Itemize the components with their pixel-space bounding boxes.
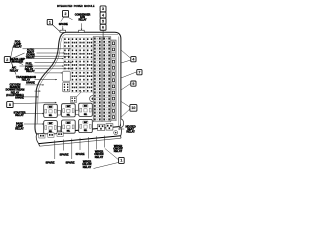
svg-text:9: 9 [132,82,134,86]
svg-text:1: 1 [49,20,51,24]
svg-text:5: 5 [102,19,104,23]
svg-text:4: 4 [102,13,104,17]
svg-text:WASHER: WASHER [12,59,24,63]
svg-text:1: 1 [120,159,122,163]
svg-text:2: 2 [6,58,8,62]
svg-text:REL: REL [67,131,70,133]
svg-text:RELAY: RELAY [15,113,24,117]
svg-text:INTEGRATED POWER MODULE: INTEGRATED POWER MODULE [57,4,95,8]
svg-text:RELAY: RELAY [114,149,123,153]
svg-text:REL: REL [49,115,52,117]
svg-text:SPARE: SPARE [65,160,74,164]
svg-text:SPARE: SPARE [15,96,24,100]
svg-text:RELAY: RELAY [126,130,135,134]
svg-text:SPARE: SPARE [26,80,35,84]
svg-text:SPARE: SPARE [45,161,54,165]
svg-text:RELAY: RELAY [13,45,22,49]
svg-text:SPARE: SPARE [75,152,84,156]
svg-text:RELAY: RELAY [15,126,24,130]
svg-text:6: 6 [102,26,104,30]
svg-text:RELAY: RELAY [78,19,86,22]
svg-text:RELAY: RELAY [26,69,35,73]
svg-text:10: 10 [131,106,135,110]
svg-text:RELAY: RELAY [95,155,104,159]
svg-text:RELAY: RELAY [83,165,92,169]
svg-text:2: 2 [65,12,67,16]
svg-text:8: 8 [9,103,11,107]
svg-text:7: 7 [138,70,140,74]
svg-text:REL: REL [84,114,87,116]
svg-text:REL: REL [67,114,70,116]
svg-text:REL: REL [84,130,87,132]
svg-text:3: 3 [102,7,104,11]
svg-text:SPARE: SPARE [59,22,68,26]
svg-text:4: 4 [132,57,134,61]
svg-text:RELAY: RELAY [10,68,19,72]
svg-text:SPARE: SPARE [59,152,68,156]
